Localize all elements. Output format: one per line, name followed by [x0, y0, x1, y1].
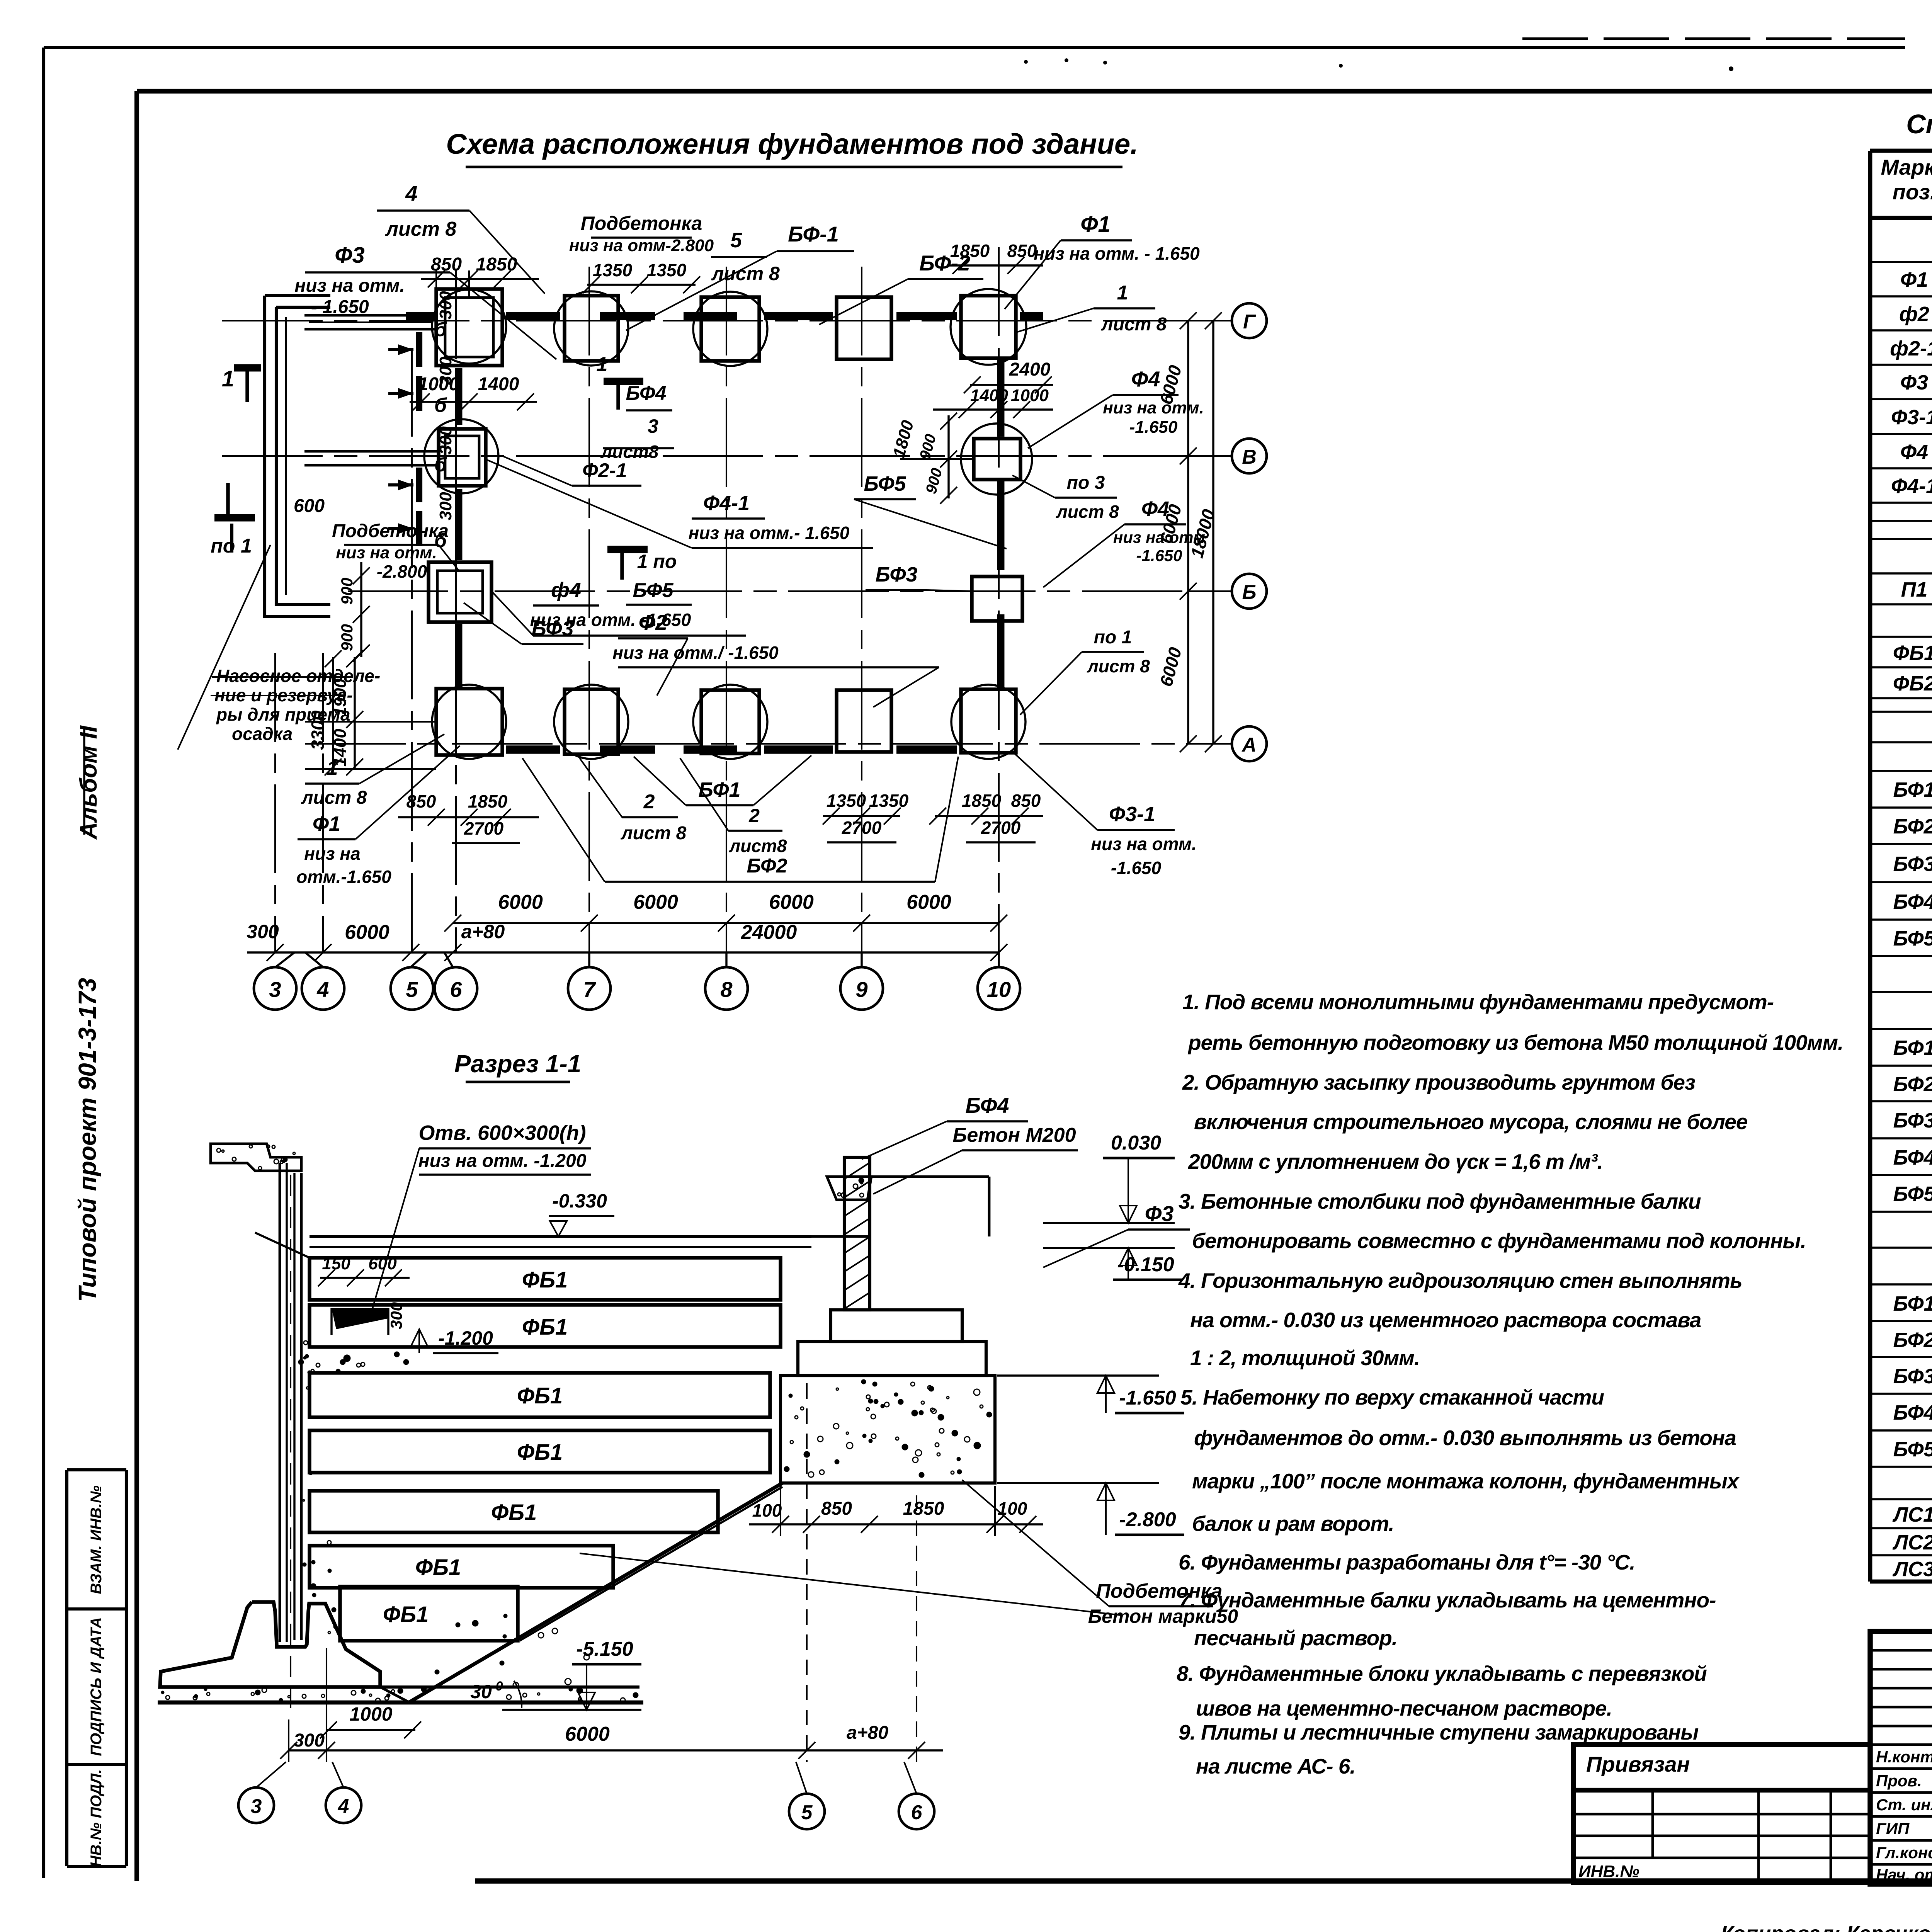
svg-text:150: 150	[322, 1254, 350, 1273]
svg-text:низ на отм. -1.650: низ на отм. -1.650	[530, 610, 691, 630]
svg-text:850: 850	[821, 1498, 852, 1519]
svg-text:2400: 2400	[1009, 359, 1051, 380]
svg-text:лист 8: лист 8	[1087, 656, 1150, 676]
svg-text:БФ2: БФ2	[747, 855, 787, 877]
svg-text:Пров.: Пров.	[1876, 1772, 1922, 1790]
svg-text:низ на отм.- 1.650: низ на отм.- 1.650	[689, 523, 850, 543]
svg-text:-1.650: -1.650	[1129, 418, 1178, 437]
svg-text:300: 300	[436, 492, 455, 520]
svg-text:2. Обратную засыпку производит: 2. Обратную засыпку производить грунтом …	[1182, 1070, 1695, 1094]
axis line 3	[274, 653, 276, 952]
svg-text:ФБ1: ФБ1	[522, 1267, 568, 1293]
axis line 10	[998, 247, 1000, 952]
axis line 5	[411, 348, 413, 952]
svg-text:1000: 1000	[349, 1703, 392, 1725]
outer border left	[42, 48, 45, 1878]
svg-text:1350: 1350	[869, 791, 909, 811]
svg-text:БФ3: БФ3	[1893, 852, 1932, 876]
svg-text:Ф1: Ф1	[313, 812, 340, 835]
svg-text:БФ5: БФ5	[1893, 1438, 1932, 1461]
top surface lines	[310, 1235, 811, 1238]
svg-text:Подбетонка: Подбетонка	[581, 213, 702, 234]
svg-text:ФБ1: ФБ1	[522, 1315, 568, 1340]
svg-text:песчаный раствор.: песчаный раствор.	[1194, 1626, 1397, 1650]
svg-text:2700: 2700	[981, 818, 1021, 838]
svg-text:1 по: 1 по	[637, 551, 677, 572]
svg-text:Б: Б	[1242, 581, 1257, 604]
pier F4 at 10/Б	[972, 577, 1022, 621]
frame bottom	[475, 1878, 1932, 1884]
svg-text:Марка: Марка	[1881, 155, 1932, 179]
svg-text:Ф1: Ф1	[1900, 268, 1928, 291]
svg-text:ФБ1: ФБ1	[517, 1440, 563, 1465]
svg-text:Гл.конст.: Гл.конст.	[1876, 1844, 1932, 1862]
pump station wall outline	[265, 294, 330, 297]
margin boxes right line	[125, 1470, 128, 1866]
axis line В	[222, 455, 1231, 457]
svg-text:швов на цементно-песчаном рас: швов на цементно-песчаном растворе.	[1196, 1696, 1612, 1720]
svg-text:ИНВ.№: ИНВ.№	[1578, 1862, 1639, 1881]
pedestal steps	[831, 1310, 962, 1342]
svg-text:300: 300	[436, 291, 455, 320]
svg-text:БФ5: БФ5	[1893, 1182, 1932, 1206]
svg-text:- 1.650: - 1.650	[311, 297, 369, 317]
svg-text:ры для приема: ры для приема	[216, 704, 350, 724]
svg-text:низ на отм.: низ на отм.	[1091, 834, 1196, 854]
svg-text:ф2: ф2	[1899, 303, 1929, 326]
svg-text:3: 3	[648, 415, 658, 437]
axis bubble 10	[978, 967, 1020, 1010]
svg-text:6000: 6000	[498, 891, 543, 913]
svg-text:лист 8: лист 8	[385, 218, 457, 240]
axis line 9	[861, 267, 862, 952]
svg-text:4. Горизонтальную гидроизоляци: 4. Горизонтальную гидроизоляцию стен вып…	[1178, 1269, 1742, 1293]
svg-text:лист 8: лист 8	[1056, 502, 1119, 522]
svg-text:ПОДПИСЬ И ДАТА: ПОДПИСЬ И ДАТА	[88, 1617, 105, 1756]
svg-text:ЛС3: ЛС3	[1892, 1558, 1932, 1581]
inner frame left	[134, 91, 139, 1881]
axis line 7	[588, 267, 590, 952]
svg-text:БФ4: БФ4	[1893, 890, 1932, 913]
svg-text:600: 600	[368, 1254, 397, 1273]
svg-text:лист 8: лист 8	[621, 823, 687, 844]
labels near 6/Г lower: 1 BF4 3 list8	[616, 381, 620, 410]
plan title underline	[466, 166, 1122, 168]
svg-text:БФ1: БФ1	[698, 778, 740, 801]
svg-text:ВЗАМ. ИНВ.№: ВЗАМ. ИНВ.№	[88, 1485, 105, 1594]
svg-text:НВ.№ ПОДЛ.: НВ.№ ПОДЛ.	[88, 1769, 105, 1867]
svg-text:Ф2-1: Ф2-1	[582, 459, 627, 482]
svg-text:1 : 2, толщиной 30мм.: 1 : 2, толщиной 30мм.	[1190, 1346, 1420, 1370]
svg-text:Насосное отделе-: Насосное отделе-	[216, 666, 380, 686]
svg-text:Бетон М200: Бетон М200	[953, 1124, 1076, 1146]
svg-text:БФ3: БФ3	[1893, 1109, 1932, 1132]
svg-text:Г: Г	[1243, 311, 1256, 333]
svg-text:1350: 1350	[827, 791, 866, 811]
svg-text:-2.800: -2.800	[377, 561, 427, 582]
svg-text:6. Фундаменты разработаны для: 6. Фундаменты разработаны для t°= -30 °С…	[1179, 1550, 1635, 1574]
svg-text:Отв. 600×300(h): Отв. 600×300(h)	[418, 1121, 586, 1145]
svg-text:3. Бетонные столбики под фунда: 3. Бетонные столбики под фундаментные ба…	[1179, 1189, 1701, 1213]
axis line 6	[455, 270, 457, 952]
foundation F2 at 7/А	[565, 689, 618, 754]
svg-text:низ на отм.: низ на отм.	[336, 543, 437, 562]
svg-text:Ф1: Ф1	[1080, 212, 1111, 237]
svg-text:низ на отм.: низ на отм.	[294, 276, 405, 296]
axis bubble Б	[1232, 574, 1267, 609]
foundation F4 at 10/В	[961, 423, 1032, 495]
svg-text:7: 7	[583, 977, 596, 1002]
privyazan block	[1573, 1745, 1870, 1790]
svg-text:балок и рам ворот.: балок и рам ворот.	[1192, 1512, 1394, 1536]
svg-text:1000: 1000	[418, 374, 459, 395]
svg-text:1: 1	[597, 353, 608, 376]
svg-text:Схема расположения фундаментов: Схема расположения фундаментов под здани…	[446, 128, 1138, 160]
section: footing	[160, 1602, 380, 1687]
svg-text:300: 300	[294, 1730, 325, 1751]
svg-text:В: В	[1242, 446, 1257, 468]
svg-text:П1: П1	[1901, 578, 1928, 601]
speckle under left blocks	[299, 1352, 408, 1373]
svg-text:низ на отм-2.800: низ на отм-2.800	[569, 236, 714, 255]
section: wall column	[279, 1163, 281, 1642]
svg-text:ф2-1: ф2-1	[1890, 337, 1932, 360]
svg-text:БФ4: БФ4	[965, 1093, 1009, 1117]
inner frame top	[137, 89, 1932, 94]
svg-text:Ф4-1: Ф4-1	[1891, 474, 1932, 498]
svg-text:-0.330: -0.330	[552, 1190, 607, 1212]
svg-text:-1.200: -1.200	[438, 1327, 493, 1349]
svg-text:-1.650: -1.650	[1111, 858, 1162, 878]
b section marks at 6/В	[416, 468, 422, 502]
svg-text:Привязан: Привязан	[1586, 1752, 1690, 1776]
svg-text:лист 8: лист 8	[711, 263, 780, 284]
foundation F2-1 at 6/В	[424, 419, 498, 493]
svg-text:ФБ1: ФБ1	[1893, 641, 1932, 665]
svg-text:реть бетонную подготовку из бе: реть бетонную подготовку из бетона М50 т…	[1187, 1031, 1843, 1054]
svg-text:фундаментов до отм.- 0.030 в: фундаментов до отм.- 0.030 выполнять из …	[1194, 1426, 1736, 1450]
svg-text:лист 8: лист 8	[1101, 314, 1167, 335]
svg-text:1. Под всеми монолитными фунда: 1. Под всеми монолитными фундаментами пр…	[1182, 990, 1774, 1014]
svg-text:-2.800: -2.800	[1119, 1509, 1176, 1531]
svg-text:низ на отм. - 1.650: низ на отм. - 1.650	[1034, 243, 1200, 264]
svg-text:2: 2	[748, 805, 760, 827]
svg-text:8: 8	[720, 977, 733, 1002]
svg-text:Спецификация к схеме расположе: Спецификация к схеме расположения фундам…	[1906, 109, 1932, 139]
svg-text:ФБ1: ФБ1	[383, 1602, 429, 1627]
svg-text:ФБ1: ФБ1	[415, 1555, 461, 1580]
axis line 4	[322, 653, 324, 952]
svg-text:6000: 6000	[769, 891, 814, 913]
svg-text:БФ4: БФ4	[626, 382, 667, 405]
svg-text:поз.: поз.	[1893, 180, 1932, 204]
svg-text:4: 4	[405, 181, 417, 206]
svg-text:по 3: по 3	[1067, 473, 1105, 493]
svg-text:БФ-1: БФ-1	[788, 222, 839, 246]
svg-text:4: 4	[338, 1795, 349, 1818]
svg-text:включения строительного мусора: включения строительного мусора, слоями н…	[1194, 1110, 1748, 1134]
svg-text:ЛС2: ЛС2	[1892, 1531, 1932, 1554]
svg-text:на отм.- 0.030 из цементного р: на отм.- 0.030 из цементного раствора со…	[1190, 1308, 1701, 1332]
axis bubble 9	[840, 967, 883, 1010]
svg-text:1: 1	[327, 757, 338, 779]
svg-text:низ на: низ на	[304, 844, 361, 864]
right vertical dims 6000/18000	[1187, 321, 1189, 744]
svg-text:0.030: 0.030	[1111, 1132, 1161, 1154]
svg-text:лист 8: лист 8	[301, 787, 367, 808]
svg-text:БФ1: БФ1	[1893, 1036, 1932, 1060]
svg-text:8. Фундаментные блоки уклады: 8. Фундаментные блоки укладывать с перев…	[1177, 1662, 1707, 1685]
svg-text:1850: 1850	[950, 241, 990, 261]
pier BF3 at 9/Г	[837, 297, 891, 359]
bubble tails	[276, 952, 294, 967]
foundation F1 at 10/Г	[961, 296, 1016, 358]
svg-text:Ст. инж.: Ст. инж.	[1876, 1796, 1932, 1814]
svg-text:б: б	[434, 394, 447, 417]
svg-text:бетонировать совместно с фунд: бетонировать совместно с фундаментами по…	[1192, 1229, 1806, 1253]
svg-text:Разрез 1-1: Разрез 1-1	[454, 1050, 582, 1078]
svg-text:БФ2: БФ2	[1893, 1073, 1932, 1096]
svg-text:6: 6	[911, 1801, 923, 1824]
svg-text:Н.контр.: Н.контр.	[1876, 1748, 1932, 1766]
svg-text:БФ5: БФ5	[864, 472, 906, 495]
svg-text:ФБ1: ФБ1	[517, 1383, 563, 1408]
svg-text:1400: 1400	[970, 386, 1008, 405]
svg-text:7. Фундаментные балки уклады: 7. Фундаментные балки укладывать на цеме…	[1179, 1588, 1716, 1612]
svg-text:850: 850	[1011, 791, 1041, 811]
b section marks at 6/Г	[416, 332, 422, 367]
svg-text:-5.150: -5.150	[576, 1638, 633, 1660]
svg-text:Ф4: Ф4	[1900, 440, 1928, 464]
svg-text:низ на отм. -1.200: низ на отм. -1.200	[418, 1151, 587, 1171]
svg-text:Альбом II: Альбом II	[75, 725, 102, 840]
svg-text:марки „100” после монтажа коло: марки „100” после монтажа колонн, фундам…	[1192, 1469, 1740, 1493]
excavation toe	[380, 1687, 410, 1702]
svg-text:0: 0	[496, 1679, 503, 1694]
svg-text:ФБ1: ФБ1	[491, 1500, 537, 1525]
right foundation: column hatched	[844, 1157, 870, 1310]
beam BF-1 row Г	[406, 312, 435, 320]
axis bubble 5	[391, 967, 433, 1010]
svg-text:6: 6	[450, 977, 462, 1002]
foundation F2 at 8/А	[701, 690, 759, 753]
axis line Б	[348, 590, 1231, 592]
svg-text:1850: 1850	[962, 791, 1002, 811]
block FB1 #7	[340, 1587, 518, 1641]
svg-text:5: 5	[730, 229, 742, 252]
label 1 po BF5	[620, 549, 624, 580]
block FB1 #4	[310, 1430, 770, 1473]
svg-text:-1.650: -1.650	[1119, 1387, 1176, 1409]
svg-text:на листе АС- 6.: на листе АС- 6.	[1196, 1754, 1355, 1778]
svg-text:Ф4-1: Ф4-1	[703, 492, 750, 515]
svg-text:А: А	[1241, 734, 1257, 756]
axis line А	[305, 743, 1231, 745]
svg-text:по 1: по 1	[1094, 627, 1132, 648]
section mark 1 lower	[226, 483, 230, 518]
svg-text:5. Набетонку по верху стаканно: 5. Набетонку по верху стаканной части	[1180, 1385, 1604, 1409]
axis bubble Г	[1232, 303, 1267, 338]
block FB1 #3	[310, 1373, 770, 1417]
BF4 beam seat piece	[827, 1177, 871, 1200]
foundation F2 at 7/Г	[565, 296, 618, 361]
svg-text:БФ4: БФ4	[1893, 1401, 1932, 1424]
axis line 8	[726, 267, 727, 952]
opening in wall (dark)	[332, 1308, 388, 1329]
svg-text:100: 100	[752, 1500, 782, 1520]
block FB1 #2	[310, 1305, 781, 1347]
axis bubble 3	[254, 967, 296, 1010]
foundation F2 at 8/Г	[701, 297, 759, 361]
svg-text:100: 100	[998, 1498, 1027, 1519]
svg-text:300: 300	[247, 921, 279, 942]
svg-text:2700: 2700	[464, 818, 504, 838]
wall stub to 6/Г	[304, 314, 436, 317]
svg-text:6000: 6000	[633, 891, 678, 913]
svg-text:900: 900	[338, 578, 356, 605]
svg-text:осадка: осадка	[232, 724, 293, 744]
svg-text:1850: 1850	[903, 1498, 944, 1519]
wall stub to 6/В	[304, 450, 439, 453]
outer border top	[44, 46, 1905, 49]
svg-text:6000: 6000	[345, 921, 389, 944]
beam BF5 vertical axis 10	[997, 360, 1005, 437]
axis bubble А	[1232, 726, 1267, 761]
svg-text:Ф4: Ф4	[1131, 367, 1160, 391]
svg-text:3: 3	[269, 977, 281, 1002]
svg-text:БФ1: БФ1	[1893, 1292, 1932, 1315]
svg-text:1850: 1850	[468, 791, 508, 811]
svg-text:1350: 1350	[647, 260, 687, 280]
svg-text:БФ1: БФ1	[1893, 778, 1932, 801]
foundation F1 at 6/А	[436, 689, 502, 755]
svg-text:ф4: ф4	[551, 578, 581, 602]
svg-text:9. Плиты и лестничные ступе: 9. Плиты и лестничные ступени замаркиров…	[1179, 1720, 1698, 1744]
svg-text:300: 300	[387, 1302, 405, 1329]
svg-text:4: 4	[316, 977, 329, 1002]
svg-text:300: 300	[436, 426, 455, 455]
svg-text:БФ4: БФ4	[1893, 1146, 1932, 1169]
svg-text:БФ2: БФ2	[1893, 1328, 1932, 1352]
svg-text:1: 1	[1117, 282, 1128, 304]
svg-text:5: 5	[801, 1801, 813, 1824]
svg-text:а+80: а+80	[461, 921, 505, 942]
block FB1 #5	[310, 1491, 718, 1532]
svg-text:Ф3: Ф3	[1900, 371, 1928, 394]
svg-text:Ф3-1: Ф3-1	[1891, 406, 1932, 429]
svg-text:30: 30	[470, 1681, 492, 1702]
top stray line	[1522, 37, 1905, 40]
title block	[1870, 1631, 1932, 1884]
svg-text:850: 850	[406, 791, 436, 811]
beam BF row А	[506, 745, 560, 754]
svg-text:ФБ2: ФБ2	[1893, 672, 1932, 695]
top right structures lines	[871, 1175, 989, 1178]
svg-text:1400: 1400	[478, 374, 519, 395]
svg-text:отм.-1.650: отм.-1.650	[296, 867, 391, 887]
svg-text:6000: 6000	[565, 1723, 610, 1745]
svg-text:Подбетонка: Подбетонка	[332, 521, 449, 541]
svg-text:ГИП: ГИП	[1876, 1820, 1910, 1838]
margin boxes left line	[65, 1470, 68, 1866]
foundation F3-1 at 10/А	[961, 689, 1016, 753]
svg-text:5: 5	[406, 977, 418, 1002]
pier F4 at 6/Б	[429, 562, 492, 622]
axis bubble 8	[705, 967, 748, 1010]
svg-text:а+80: а+80	[847, 1723, 888, 1743]
svg-text:лист8: лист8	[729, 836, 787, 856]
svg-text:2700: 2700	[842, 818, 882, 838]
section mark 1 upper	[245, 367, 249, 402]
svg-text:24000: 24000	[741, 921, 797, 944]
svg-text:1: 1	[222, 366, 234, 391]
svg-text:2: 2	[643, 791, 655, 813]
svg-text:Ф3-1: Ф3-1	[1109, 803, 1155, 826]
excavation slope line	[409, 1483, 782, 1702]
svg-text:БФ3: БФ3	[875, 563, 917, 586]
svg-text:600: 600	[294, 496, 325, 516]
section: top slab left	[211, 1144, 301, 1171]
svg-text:3: 3	[251, 1795, 262, 1818]
svg-text:9: 9	[855, 977, 867, 1002]
axis bubble 6	[435, 967, 477, 1010]
svg-text:Копировал: Карочкое: Копировал: Карочкое	[1721, 1922, 1932, 1932]
svg-text:Нач. отд: Нач. отд	[1876, 1866, 1932, 1884]
svg-text:1850: 1850	[476, 254, 517, 275]
axis line Г	[222, 320, 1231, 321]
pier BF2 at 9/А	[837, 690, 891, 752]
svg-text:БФ5: БФ5	[1893, 927, 1932, 950]
svg-text:6000: 6000	[906, 891, 951, 913]
section axis bubbles	[238, 1787, 274, 1823]
svg-text:ЛС1: ЛС1	[1892, 1503, 1932, 1526]
axis bubble В	[1232, 439, 1267, 473]
svg-text:900: 900	[338, 624, 356, 651]
svg-text:БФ5: БФ5	[633, 579, 674, 602]
svg-text:б: б	[434, 318, 447, 341]
foundation pad F3	[781, 1376, 995, 1483]
svg-text:10: 10	[987, 977, 1011, 1002]
svg-text:БФ2: БФ2	[1893, 815, 1932, 838]
svg-text:б: б	[434, 454, 447, 476]
svg-text:лист8: лист8	[600, 442, 659, 462]
svg-text:-1.650: -1.650	[1136, 546, 1182, 565]
footing base slab	[160, 1685, 639, 1689]
beam BF4 vertical axis 6	[455, 368, 463, 425]
svg-text:850: 850	[1007, 241, 1037, 261]
axis bubble 7	[568, 967, 611, 1010]
svg-text:Ф3: Ф3	[1145, 1201, 1174, 1226]
svg-text:Ф3: Ф3	[335, 243, 365, 268]
axis bubble 4	[302, 967, 344, 1010]
block FB1 #6	[310, 1546, 613, 1588]
svg-text:Типовой проект 901-3-173: Типовой проект 901-3-173	[73, 978, 101, 1302]
svg-text:БФ3: БФ3	[1893, 1365, 1932, 1388]
foundation F3 at 6/Г	[436, 289, 502, 366]
svg-text:200мм с уплотнением до γск = 1: 200мм с уплотнением до γск = 1,6 т /м³.	[1188, 1150, 1603, 1173]
svg-text:низ на отм./ -1.650: низ на отм./ -1.650	[612, 643, 779, 663]
block FB1 #1	[310, 1258, 781, 1300]
